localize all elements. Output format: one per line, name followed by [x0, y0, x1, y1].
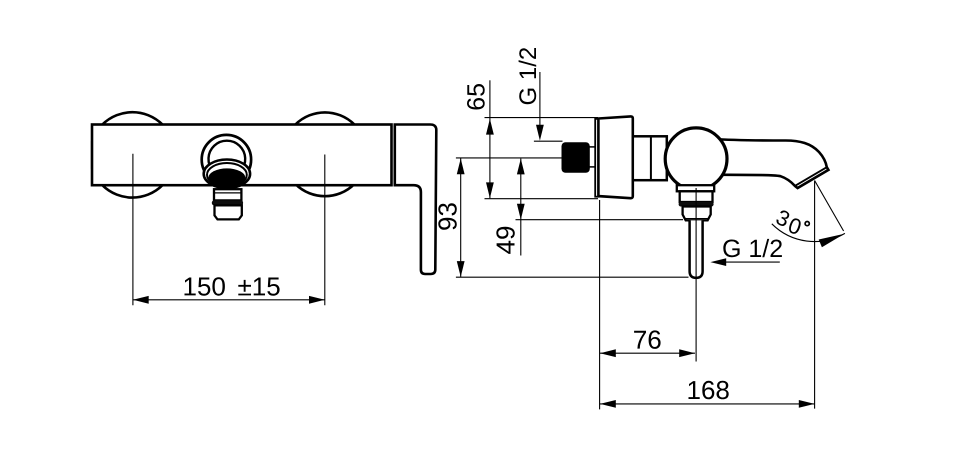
label G 1/2 (top) leader line: [539, 72, 541, 134]
dimension 93 top arrow: [457, 159, 465, 175]
dimension text 76: [634, 330, 661, 349]
front view: mixer body bar: [92, 125, 392, 186]
dimension 65 extension top: [485, 117, 599, 119]
front view: handle lever: [395, 125, 437, 275]
side view: shower outlet tube: [690, 220, 703, 278]
side view: outlet nut: [683, 207, 711, 221]
side view: spout: [713, 139, 828, 188]
side view: outlet vertical centerline: [695, 188, 697, 362]
dimension 168 line: [600, 403, 815, 405]
dimension 168 right arrow: [799, 400, 815, 408]
side view: flange escutcheon: [598, 116, 632, 198]
angle text 30 digit 3: [775, 209, 791, 228]
dimension text 168: [689, 381, 729, 400]
side view: handle knob circle: [665, 128, 727, 190]
front view: outlet collar: [214, 189, 241, 200]
angle text 30 degree symbol: [805, 222, 809, 226]
side view: outlet o-ring band (black): [679, 202, 714, 207]
front view: spout inner arch: [209, 141, 246, 171]
dimension text 65: [467, 84, 485, 110]
dimension 93 bottom reference line: [456, 276, 689, 278]
front view: outlet o-ring band (black): [212, 200, 243, 205]
label G 1/2 (top) leader foot: [534, 140, 563, 142]
label G 1/2 (top) leader arrow: [536, 125, 544, 141]
dimension 65 extension bottom: [485, 198, 599, 200]
side view: body neck: [633, 136, 667, 180]
dimension 150 left arrow: [133, 296, 149, 304]
dimension 76 right arrow: [679, 349, 695, 357]
front view: spout rim inner line: [207, 163, 247, 187]
front view: outlet collar seam: [214, 192, 241, 194]
dimension 65 top arrow: [486, 119, 494, 135]
dimension text 150: [185, 277, 225, 296]
side view: outlet upper band: [680, 191, 713, 202]
label G 1/2 (top) text: [519, 48, 537, 104]
dimension 65 bottom arrow: [486, 182, 494, 198]
dimension 49 reference line: [516, 219, 684, 221]
side view: spout tip inner face line: [795, 167, 827, 186]
angle 30 flow axis line: [815, 181, 844, 232]
side view: wall plate: [595, 119, 598, 197]
angle text 30 digit 0: [787, 217, 802, 235]
front view: right hole centerline: [324, 155, 326, 306]
side view: inlet thread block (black): [562, 142, 590, 173]
side view: outlet nut seam: [684, 218, 709, 220]
dimension 49 line: [520, 159, 522, 256]
dimension 93 bottom arrow: [457, 261, 465, 277]
dimension 49 top arrow: [517, 159, 525, 175]
front view: spout rim outer ellipse: [204, 160, 250, 189]
dimension 93 line: [460, 159, 462, 277]
dimension 76 line: [600, 352, 695, 354]
front view: left wall flange circle: [90, 112, 175, 197]
dimension text 93: [438, 203, 457, 230]
label G 1/2 (bottom) leader line: [725, 261, 780, 263]
dimension text 49: [496, 227, 515, 254]
side view: body joint line: [650, 136, 652, 180]
dimension 76 left arrow: [600, 349, 616, 357]
angle 30 vertical reference line: [814, 181, 816, 409]
angle 30 dimension arc: [772, 224, 845, 242]
dimension 49 bottom arrow: [517, 204, 525, 220]
angle 30 arc arrow: [819, 234, 845, 248]
side view: outlet collar: [677, 185, 714, 191]
dimension 150 +/-15 line: [133, 299, 325, 301]
front view: spout outer ring: [202, 135, 251, 184]
dimension 168 extension line (wall): [599, 200, 601, 409]
dimension 65 line: [489, 80, 491, 198]
label G 1/2 (bottom) text: [723, 239, 782, 257]
label G 1/2 (bottom) leader arrow: [710, 258, 726, 266]
dimension text +/-15: [238, 278, 279, 296]
front view: cover for flange left edge: [85, 108, 91, 202]
front view: outlet nut: [215, 205, 242, 219]
dimension 150 right arrow: [309, 296, 325, 304]
side view: inlet horizontal centerline: [456, 157, 562, 159]
dimension 168 left arrow: [600, 400, 616, 408]
front view: left hole centerline: [132, 154, 134, 305]
side view: inlet pipe lines: [587, 146, 598, 148]
front view: spout opening (black): [209, 168, 246, 186]
front view: right wall flange circle: [283, 112, 367, 196]
